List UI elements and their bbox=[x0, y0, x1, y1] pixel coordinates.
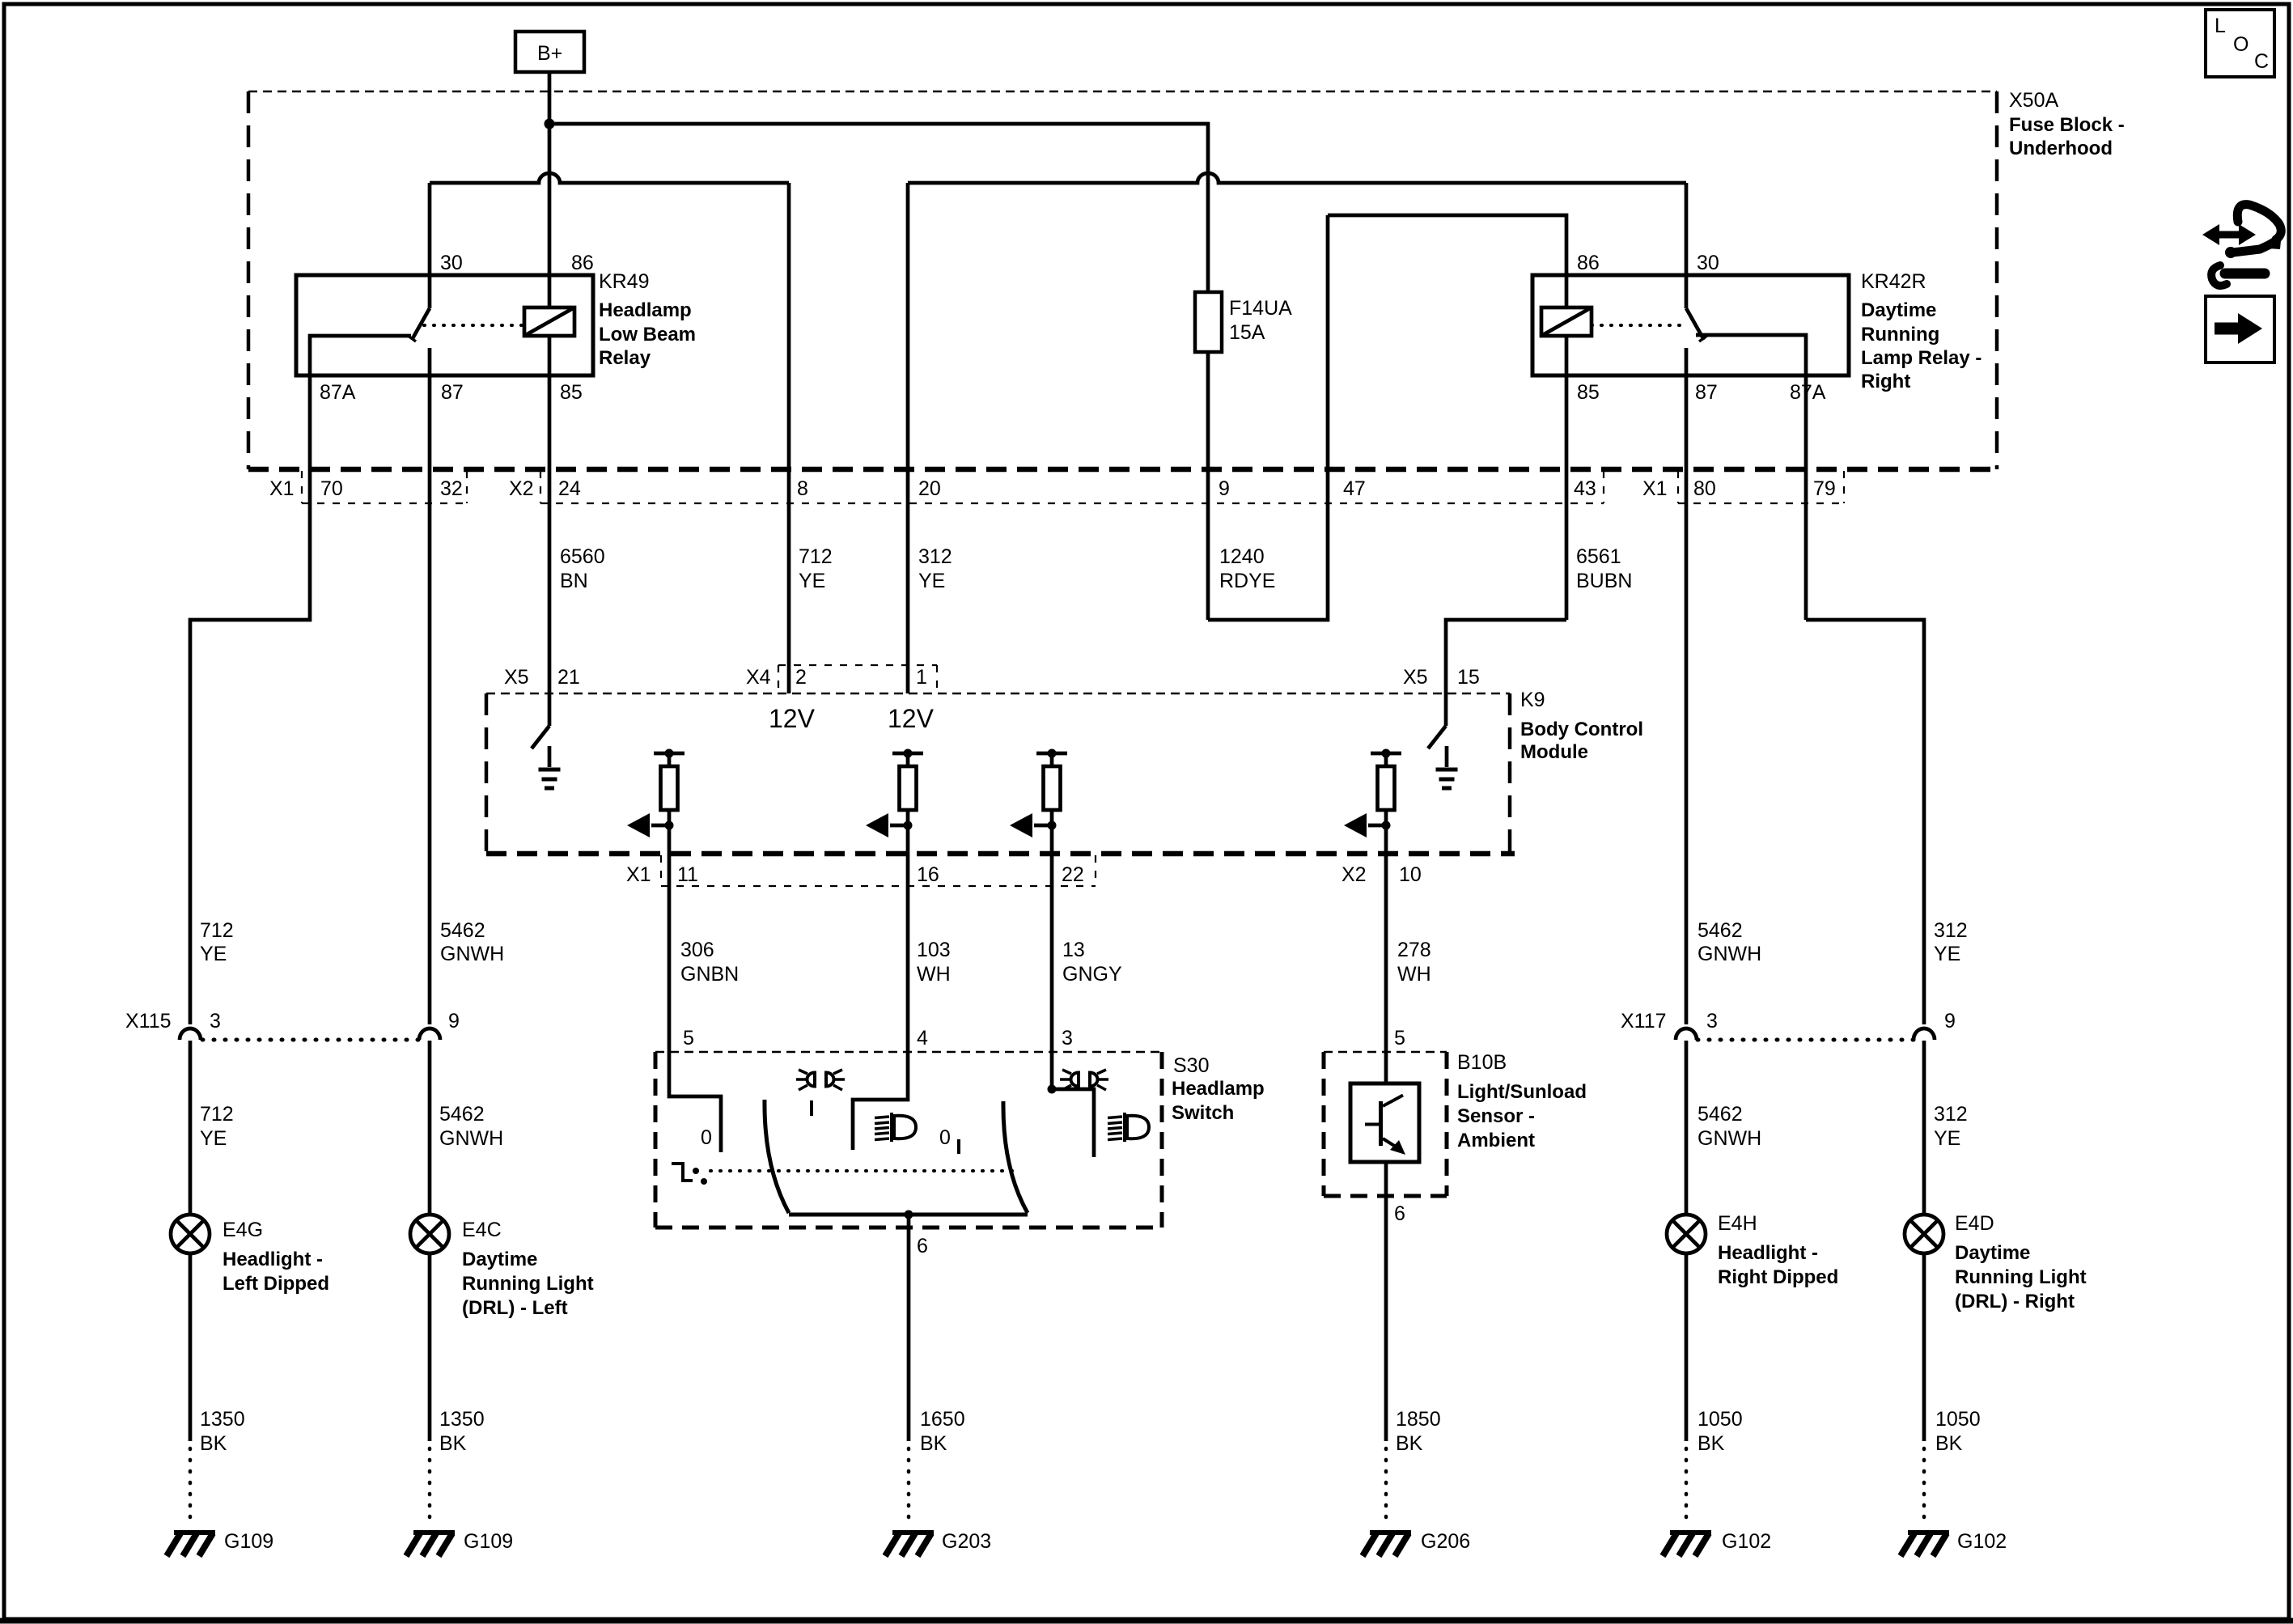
wire E4D tail bbox=[1922, 1253, 1926, 1441]
svg-text:G109: G109 bbox=[224, 1530, 273, 1553]
wire: 87A to E4G column bbox=[190, 469, 310, 1024]
lamp E4H labels bbox=[1718, 1212, 1838, 1288]
svg-text:BK: BK bbox=[439, 1432, 467, 1455]
wire 1850 BK bbox=[1384, 1162, 1388, 1441]
dotted wire to G203 bbox=[907, 1448, 911, 1528]
S30 labels bbox=[1172, 1054, 1265, 1124]
svg-text:X2: X2 bbox=[509, 477, 534, 500]
svg-text:22: 22 bbox=[1062, 863, 1084, 886]
svg-text:11: 11 bbox=[677, 863, 698, 886]
fuse F14UA 15A bbox=[1195, 292, 1292, 352]
svg-text:Headlight -: Headlight - bbox=[223, 1249, 323, 1270]
svg-text:X5: X5 bbox=[504, 666, 529, 689]
svg-text:47: 47 bbox=[1343, 477, 1366, 500]
connector X117 dotted link bbox=[1697, 1038, 1914, 1042]
svg-text:87: 87 bbox=[441, 381, 464, 404]
svg-text:6560: 6560 bbox=[560, 545, 605, 568]
svg-text:6: 6 bbox=[1394, 1202, 1405, 1225]
svg-text:Running Light: Running Light bbox=[462, 1273, 594, 1295]
svg-text:5: 5 bbox=[1394, 1027, 1405, 1049]
svg-text:Module: Module bbox=[1520, 741, 1588, 763]
svg-text:Fuse Block -: Fuse Block - bbox=[2009, 114, 2125, 136]
svg-text:24: 24 bbox=[558, 477, 581, 500]
wire: right coil 85 to pin 43 bbox=[1565, 336, 1569, 620]
relay KR49 dotted link bbox=[424, 324, 524, 327]
svg-text:306: 306 bbox=[680, 939, 714, 961]
wire label 1350 BK bbox=[200, 1408, 245, 1455]
svg-text:L: L bbox=[2215, 15, 2226, 37]
connector X115 dotted link bbox=[202, 1038, 419, 1042]
svg-text:E4D: E4D bbox=[1955, 1212, 1994, 1235]
svg-text:GNWH: GNWH bbox=[1697, 943, 1761, 965]
svg-text:Underhood: Underhood bbox=[2009, 138, 2113, 159]
lamp E4C bbox=[410, 1215, 449, 1253]
wire 306 GNBN bbox=[668, 825, 672, 1052]
boxed right-arrow icon bbox=[2206, 296, 2274, 363]
battery feed B+ box bbox=[515, 32, 584, 72]
BCM labels K9 bbox=[1520, 689, 1643, 763]
svg-text:1050: 1050 bbox=[1697, 1408, 1743, 1431]
wire label 312 YE right below bbox=[1934, 1103, 1968, 1150]
S30 low beam icon 1 bbox=[890, 1113, 893, 1142]
svg-text:0: 0 bbox=[939, 1126, 951, 1149]
S30 output bus bbox=[789, 1211, 1028, 1219]
svg-text:278: 278 bbox=[1397, 939, 1431, 961]
sensor B10B dashed box bbox=[1324, 1052, 1447, 1196]
svg-text:15A: 15A bbox=[1229, 321, 1265, 344]
S30 pin 3 contact bbox=[1048, 1052, 1095, 1157]
BCM pin X5-15 bbox=[1403, 666, 1480, 689]
svg-text:BK: BK bbox=[920, 1432, 947, 1455]
svg-text:21: 21 bbox=[557, 666, 580, 689]
wire label 712 YE left bbox=[200, 919, 234, 965]
svg-text:87A: 87A bbox=[320, 381, 356, 404]
svg-text:Left Dipped: Left Dipped bbox=[223, 1273, 329, 1295]
wire: 87 / 5462 to E4C column bbox=[428, 469, 432, 1024]
wire label 278 WH bbox=[1397, 939, 1431, 986]
wire label 1240 RDYE bbox=[1219, 545, 1275, 592]
svg-text:87: 87 bbox=[1695, 381, 1718, 404]
wire E4G tail bbox=[189, 1253, 193, 1441]
svg-text:KR42R: KR42R bbox=[1861, 270, 1926, 293]
svg-text:9: 9 bbox=[448, 1010, 460, 1032]
connector X115 bump B bbox=[419, 1028, 440, 1040]
svg-text:X1: X1 bbox=[1642, 477, 1668, 500]
svg-text:3: 3 bbox=[210, 1010, 221, 1032]
wire E4H tail bbox=[1685, 1253, 1689, 1441]
svg-text:KR49: KR49 bbox=[599, 270, 650, 293]
svg-text:(DRL) - Right: (DRL) - Right bbox=[1955, 1291, 2075, 1312]
ground G102 bbox=[1663, 1533, 1711, 1556]
lamp E4D labels bbox=[1955, 1212, 2087, 1312]
svg-text:Body Control: Body Control bbox=[1520, 719, 1643, 740]
S30 position marker dash 1 bbox=[810, 1100, 813, 1116]
double-headed arrow icon bbox=[2202, 224, 2256, 245]
wire: 85 coil to pin 24 bbox=[548, 336, 552, 693]
svg-text:Headlamp: Headlamp bbox=[599, 299, 692, 321]
wire label 103 WH bbox=[917, 939, 951, 986]
svg-text:312: 312 bbox=[1934, 919, 1968, 942]
svg-text:8: 8 bbox=[797, 477, 808, 500]
svg-text:Daytime: Daytime bbox=[462, 1249, 537, 1270]
BCM internal ground left bbox=[548, 746, 552, 767]
svg-text:5: 5 bbox=[683, 1027, 694, 1049]
wire 13 GNGY bbox=[1050, 825, 1054, 1052]
freehand routing arrow icon bbox=[2211, 205, 2282, 286]
svg-text:G206: G206 bbox=[1421, 1530, 1470, 1553]
svg-text:Running Light: Running Light bbox=[1955, 1266, 2087, 1288]
wire: fuse to pin 9 bbox=[1206, 352, 1210, 620]
BCM driver resistor 1 bbox=[654, 752, 685, 756]
svg-text:2: 2 bbox=[795, 666, 807, 689]
wire label 5462 GNWH right bbox=[1697, 919, 1761, 965]
svg-text:C: C bbox=[2254, 50, 2269, 73]
wire: B+ rail to fuse bbox=[549, 124, 1208, 292]
wire label 306 GNBN bbox=[680, 939, 739, 986]
svg-text:0: 0 bbox=[701, 1126, 712, 1149]
svg-text:6561: 6561 bbox=[1576, 545, 1621, 568]
node: B+ junction bbox=[545, 119, 555, 129]
lamp E4H bbox=[1667, 1215, 1706, 1253]
relay KR42R contact 87 bbox=[1685, 348, 1689, 1024]
svg-text:WH: WH bbox=[917, 963, 951, 986]
switch S30 dashed box bbox=[655, 1052, 1162, 1228]
svg-text:20: 20 bbox=[918, 477, 941, 500]
S30 parking lamps icon 2 bbox=[1071, 1073, 1079, 1087]
svg-text:Headlamp: Headlamp bbox=[1172, 1078, 1265, 1100]
svg-text:E4C: E4C bbox=[462, 1219, 502, 1241]
svg-text:Light/Sunload: Light/Sunload bbox=[1457, 1081, 1587, 1103]
wire label 1650 BK bbox=[920, 1408, 965, 1455]
svg-text:5462: 5462 bbox=[1697, 1103, 1743, 1126]
svg-text:16: 16 bbox=[917, 863, 939, 886]
svg-text:F14UA: F14UA bbox=[1229, 297, 1292, 320]
relay KR42R pin labels bbox=[1577, 252, 1826, 404]
wire label 712 YE below bbox=[200, 1103, 234, 1150]
svg-text:YE: YE bbox=[200, 943, 227, 965]
svg-text:1350: 1350 bbox=[200, 1408, 245, 1431]
connector X117 bump B bbox=[1914, 1028, 1935, 1040]
wire to E4D bbox=[1922, 1041, 1926, 1215]
svg-text:Relay: Relay bbox=[599, 347, 651, 369]
fuse block X50A dashed outline bbox=[248, 91, 1997, 469]
relay KR42R box bbox=[1532, 275, 1849, 375]
svg-text:GNWH: GNWH bbox=[440, 943, 504, 965]
svg-text:3: 3 bbox=[1062, 1027, 1073, 1049]
S30 parking lamps icon 1 bbox=[807, 1073, 816, 1087]
wire 103 WH bbox=[906, 825, 910, 1052]
svg-text:85: 85 bbox=[1577, 381, 1600, 404]
svg-text:G102: G102 bbox=[1722, 1530, 1771, 1553]
S30 dotted travel line bbox=[710, 1169, 1012, 1172]
svg-text:30: 30 bbox=[1697, 252, 1719, 274]
svg-text:G102: G102 bbox=[1957, 1530, 2007, 1553]
relay KR42R coil bbox=[1541, 275, 1592, 336]
svg-text:Running: Running bbox=[1861, 324, 1939, 346]
svg-text:GNWH: GNWH bbox=[1697, 1127, 1761, 1150]
B10B phototransistor bbox=[1365, 1096, 1405, 1155]
S30 blade 2 bbox=[1003, 1101, 1028, 1213]
S30 pin 4 contact bbox=[853, 1052, 908, 1150]
BCM switch to ground (X5-21) bbox=[532, 693, 549, 748]
svg-text:3: 3 bbox=[1706, 1010, 1718, 1032]
lamp E4G labels bbox=[223, 1219, 329, 1295]
ground G206 bbox=[1363, 1533, 1411, 1556]
connector X1 right group bbox=[1642, 471, 1844, 503]
lamp E4D bbox=[1905, 1215, 1943, 1253]
relay KR49 labels bbox=[599, 270, 696, 369]
BCM internal ground right bbox=[1445, 746, 1449, 767]
wire: line to right relay coil 86 bbox=[1328, 215, 1566, 275]
S30 top pin labels bbox=[683, 1027, 1073, 1049]
svg-text:Low Beam: Low Beam bbox=[599, 324, 696, 346]
X50A labels bbox=[2009, 89, 2125, 159]
svg-text:GNWH: GNWH bbox=[439, 1127, 503, 1150]
wire 1650 BK bbox=[907, 1215, 911, 1441]
dotted wire to G102 bbox=[1685, 1448, 1689, 1528]
wire: 1240 RDYE U-loop to pin 47 bbox=[1208, 215, 1328, 620]
svg-text:1050: 1050 bbox=[1935, 1408, 1981, 1431]
relay KR42R labels bbox=[1861, 270, 1981, 392]
svg-text:12V: 12V bbox=[769, 704, 816, 733]
wire label 6561 BUBN bbox=[1576, 545, 1632, 592]
svg-text:YE: YE bbox=[918, 570, 945, 592]
wire 278 WH bbox=[1384, 825, 1388, 1083]
svg-text:Switch: Switch bbox=[1172, 1102, 1234, 1124]
relay KR42R dotted link bbox=[1592, 324, 1681, 327]
svg-text:BN: BN bbox=[560, 570, 588, 592]
svg-text:5462: 5462 bbox=[439, 1103, 485, 1126]
B10B labels bbox=[1457, 1051, 1587, 1151]
S30 position marker dash 2 bbox=[957, 1139, 960, 1154]
svg-text:X4: X4 bbox=[746, 666, 771, 689]
svg-text:YE: YE bbox=[1934, 1127, 1960, 1150]
connector X1 left group bbox=[269, 471, 467, 503]
wire: left relay pin 30 drop bbox=[428, 183, 432, 275]
wire label 5462 GNWH right below bbox=[1697, 1103, 1761, 1150]
svg-text:30: 30 bbox=[440, 252, 463, 274]
svg-text:X50A: X50A bbox=[2009, 89, 2058, 112]
svg-text:B10B: B10B bbox=[1457, 1051, 1507, 1074]
wire: 30-rail right segment with hop bbox=[908, 173, 1686, 183]
connector X2 group bbox=[509, 471, 1604, 503]
BCM driver resistor 2 bbox=[892, 752, 923, 756]
wire: 30-rail left segment with hop bbox=[430, 173, 789, 183]
svg-text:S30: S30 bbox=[1173, 1054, 1209, 1077]
svg-text:5462: 5462 bbox=[1697, 919, 1743, 942]
wire: B+ stem bbox=[548, 72, 552, 124]
svg-text:Right Dipped: Right Dipped bbox=[1718, 1266, 1838, 1288]
wire label 312 YE bbox=[918, 545, 952, 592]
wire: right relay pin 30 drop bbox=[1685, 183, 1689, 275]
wire label 1350 BK 2 bbox=[439, 1408, 485, 1455]
wire: 6561 BUBN to BCM X5-15 bbox=[1446, 620, 1566, 693]
svg-text:103: 103 bbox=[917, 939, 951, 961]
wire to E4C bbox=[428, 1041, 432, 1215]
BCM pin X4 connector bbox=[746, 665, 937, 693]
connector X117 labels bbox=[1621, 1010, 1956, 1032]
ground G109 bbox=[406, 1533, 455, 1556]
svg-text:X1: X1 bbox=[269, 477, 295, 500]
svg-text:(DRL) - Left: (DRL) - Left bbox=[462, 1297, 568, 1319]
BCM pin X5-21 bbox=[504, 666, 580, 689]
wire to E4H bbox=[1685, 1041, 1689, 1215]
relay KR49 switch blade bbox=[407, 275, 430, 341]
svg-text:Headlight -: Headlight - bbox=[1718, 1242, 1818, 1264]
dotted wire to G206 bbox=[1384, 1448, 1388, 1528]
svg-text:13: 13 bbox=[1062, 939, 1085, 961]
svg-text:X115: X115 bbox=[125, 1010, 172, 1032]
BCM driver resistor 3 bbox=[1036, 752, 1067, 756]
ground G203 bbox=[885, 1533, 934, 1556]
svg-text:79: 79 bbox=[1813, 477, 1836, 500]
svg-text:4: 4 bbox=[917, 1027, 928, 1049]
svg-text:87A: 87A bbox=[1790, 381, 1826, 404]
wire label 13 GNGY bbox=[1062, 939, 1122, 986]
wire: pin 8 feed (712 YE to BCM X4-2) bbox=[787, 183, 791, 693]
wire: pin 20 feed (312 YE to BCM X4-1) bbox=[906, 183, 910, 693]
svg-text:10: 10 bbox=[1399, 863, 1422, 886]
svg-text:5462: 5462 bbox=[440, 919, 485, 942]
S30 pin 5 contact bbox=[669, 1052, 721, 1152]
relay KR49 box bbox=[296, 275, 593, 375]
wire to E4G bbox=[189, 1041, 193, 1215]
BCM bottom connector X2 labels bbox=[1341, 863, 1422, 886]
wire label 5462 GNWH left bbox=[440, 919, 504, 965]
svg-text:Right: Right bbox=[1861, 371, 1910, 392]
svg-text:32: 32 bbox=[440, 477, 463, 500]
svg-text:Sensor -: Sensor - bbox=[1457, 1105, 1535, 1127]
relay KR42R contact 87A bbox=[1696, 335, 1806, 620]
svg-text:X117: X117 bbox=[1621, 1010, 1667, 1032]
BCM K9 dashed box bbox=[486, 693, 1515, 854]
svg-text:BK: BK bbox=[200, 1432, 227, 1455]
wire label 712 YE bbox=[799, 545, 833, 592]
wire label 1850 BK bbox=[1396, 1408, 1441, 1455]
svg-text:G109: G109 bbox=[464, 1530, 513, 1553]
svg-text:80: 80 bbox=[1693, 477, 1716, 500]
dotted wire to G109 bbox=[189, 1448, 193, 1528]
BCM driver resistor 4 bbox=[1371, 752, 1401, 756]
svg-text:Daytime: Daytime bbox=[1955, 1242, 2030, 1264]
S30 low beam icon 2 bbox=[1123, 1113, 1126, 1142]
svg-text:GNBN: GNBN bbox=[680, 963, 739, 986]
svg-text:1350: 1350 bbox=[439, 1408, 485, 1431]
svg-text:BUBN: BUBN bbox=[1576, 570, 1632, 592]
relay KR42R switch blade bbox=[1686, 275, 1708, 341]
B10B inner box bbox=[1350, 1083, 1419, 1162]
svg-text:X5: X5 bbox=[1403, 666, 1428, 689]
wire label 1050 BK 2 bbox=[1935, 1408, 1981, 1455]
S30 detent symbol bbox=[672, 1164, 707, 1185]
svg-text:70: 70 bbox=[320, 477, 343, 500]
svg-text:YE: YE bbox=[1934, 943, 1960, 965]
svg-text:85: 85 bbox=[560, 381, 583, 404]
ground G102 bbox=[1901, 1533, 1949, 1556]
svg-text:1240: 1240 bbox=[1219, 545, 1265, 568]
svg-text:9: 9 bbox=[1219, 477, 1230, 500]
dotted wire to G102 bbox=[1922, 1448, 1926, 1528]
wire label 1050 BK bbox=[1697, 1408, 1743, 1455]
svg-text:9: 9 bbox=[1944, 1010, 1956, 1032]
wire: 79 to E4D column bbox=[1806, 620, 1924, 1024]
svg-text:Lamp Relay -: Lamp Relay - bbox=[1861, 347, 1981, 369]
svg-text:6: 6 bbox=[917, 1235, 928, 1257]
BCM bottom connector X1 group bbox=[626, 855, 1096, 886]
svg-text:15: 15 bbox=[1457, 666, 1480, 689]
BCM switch to ground (X5-15) bbox=[1428, 693, 1446, 748]
svg-text:YE: YE bbox=[799, 570, 825, 592]
svg-text:1650: 1650 bbox=[920, 1408, 965, 1431]
svg-text:YE: YE bbox=[200, 1127, 227, 1150]
relay KR49 coil bbox=[524, 307, 574, 336]
svg-text:E4G: E4G bbox=[223, 1219, 263, 1241]
svg-text:86: 86 bbox=[571, 252, 594, 274]
svg-text:712: 712 bbox=[200, 1103, 234, 1126]
svg-text:GNGY: GNGY bbox=[1062, 963, 1122, 986]
connector X115 labels bbox=[125, 1010, 460, 1032]
svg-text:1: 1 bbox=[916, 666, 927, 689]
svg-text:BK: BK bbox=[1935, 1432, 1963, 1455]
svg-text:K9: K9 bbox=[1520, 689, 1545, 711]
S30 blade 1 bbox=[765, 1100, 789, 1213]
svg-text:12V: 12V bbox=[888, 704, 935, 733]
svg-text:712: 712 bbox=[200, 919, 234, 942]
relay KR49 contact 87A bbox=[310, 336, 411, 469]
svg-text:86: 86 bbox=[1577, 252, 1600, 274]
LOC legend box bbox=[2206, 10, 2274, 77]
lamp E4G bbox=[171, 1215, 210, 1253]
svg-text:E4H: E4H bbox=[1718, 1212, 1757, 1235]
ground G109 bbox=[167, 1533, 215, 1556]
wire label 312 YE right bbox=[1934, 919, 1968, 965]
dotted wire to G109 bbox=[428, 1448, 432, 1528]
connector X117 bump A bbox=[1676, 1028, 1697, 1040]
wire label 6560 BN bbox=[560, 545, 605, 592]
relay KR49 contact 87 bbox=[428, 348, 432, 469]
svg-text:RDYE: RDYE bbox=[1219, 570, 1275, 592]
svg-text:X1: X1 bbox=[626, 863, 651, 886]
wire: left relay coil 86 from B+ bbox=[548, 124, 552, 307]
wire label 5462 GNWH below bbox=[439, 1103, 503, 1150]
wire E4C tail bbox=[428, 1253, 432, 1441]
svg-text:43: 43 bbox=[1574, 477, 1596, 500]
svg-text:B+: B+ bbox=[537, 42, 562, 65]
svg-text:BK: BK bbox=[1697, 1432, 1725, 1455]
svg-text:Ambient: Ambient bbox=[1457, 1130, 1535, 1151]
svg-text:312: 312 bbox=[1934, 1103, 1968, 1126]
svg-text:312: 312 bbox=[918, 545, 952, 568]
svg-text:1850: 1850 bbox=[1396, 1408, 1441, 1431]
svg-text:BK: BK bbox=[1396, 1432, 1423, 1455]
lamp E4C labels bbox=[462, 1219, 594, 1319]
svg-text:WH: WH bbox=[1397, 963, 1431, 986]
svg-text:X2: X2 bbox=[1341, 863, 1367, 886]
svg-text:Daytime: Daytime bbox=[1861, 299, 1936, 321]
svg-text:O: O bbox=[2233, 33, 2248, 56]
svg-text:G203: G203 bbox=[942, 1530, 991, 1553]
relay KR49 pin labels bbox=[320, 252, 594, 404]
svg-text:712: 712 bbox=[799, 545, 833, 568]
connector X115 bump A bbox=[180, 1028, 201, 1040]
